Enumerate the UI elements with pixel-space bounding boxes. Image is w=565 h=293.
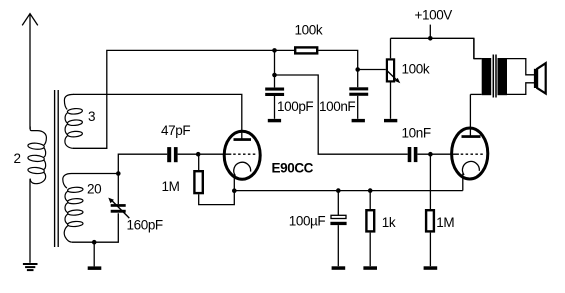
ground bar coil20	[88, 266, 102, 270]
svg-text:10nF: 10nF	[402, 126, 431, 141]
triode V1a E90CC	[224, 131, 260, 191]
svg-text:+100V: +100V	[415, 8, 453, 23]
speaker LS	[534, 63, 546, 93]
wire cathode bus	[234, 190, 462, 192]
supply +100V stub	[429, 25, 431, 39]
wire 100pF branch	[274, 50, 276, 87]
wire +100V bus	[391, 38, 482, 58]
wire ground lead	[93, 242, 95, 266]
svg-text:100µF: 100µF	[289, 214, 326, 229]
earth ground antenna	[23, 264, 38, 270]
wire plate lead V1a from coil 3 top	[73, 94, 242, 139]
capacitor 100pF	[265, 88, 284, 123]
wire antenna ground lead	[29, 179, 31, 263]
coil L1 primary "2"	[28, 127, 47, 184]
transformer core T1	[55, 90, 59, 247]
output transformer T2	[470, 38, 534, 97]
resistor 1k	[363, 191, 377, 270]
resistor 1M grid	[194, 154, 234, 204]
wire varcap bottom to coil20 bottom	[72, 213, 118, 242]
svg-text:2: 2	[14, 151, 21, 166]
node dot 1k	[368, 188, 373, 193]
node dot 100uF	[336, 188, 341, 193]
node dot cathode1	[232, 188, 237, 193]
wire coil 3 bottom to 100k bus	[73, 50, 295, 148]
wire plate lead V1b	[469, 94, 471, 136]
capacitor 100uF	[330, 191, 346, 270]
capacitor 10nF	[408, 147, 418, 162]
svg-text:1k: 1k	[382, 215, 396, 230]
coil L3 secondary "20"	[63, 174, 83, 243]
svg-text:100k: 100k	[295, 22, 323, 37]
node dot grid2	[428, 152, 433, 157]
wire varcap top lead	[117, 174, 119, 205]
resistor 100k plate	[295, 47, 317, 53]
potentiometer 100k	[384, 38, 400, 122]
variable capacitor C 160pF	[108, 198, 129, 219]
svg-text:1M: 1M	[162, 179, 180, 194]
svg-text:100pF: 100pF	[277, 99, 313, 114]
node dot 100pF/coupling	[272, 73, 277, 78]
capacitor 100nF	[349, 70, 368, 123]
svg-text:20: 20	[87, 182, 101, 197]
svg-text:100k: 100k	[402, 61, 430, 76]
wire coupling to 10nF rail	[275, 75, 408, 154]
capacitor 47pF	[167, 147, 177, 162]
node dot 100nF/pot	[355, 67, 360, 72]
antenna	[22, 14, 38, 129]
resistor 1M grid2	[424, 154, 438, 270]
wire 100k right to pot node	[318, 50, 386, 69]
coil L2 secondary "3"	[64, 94, 82, 148]
svg-text:E90CC: E90CC	[272, 161, 314, 176]
svg-text:3: 3	[88, 109, 95, 124]
svg-text:100nF: 100nF	[319, 99, 355, 114]
node grid1 top corner, wire to 47pF	[118, 154, 167, 173]
svg-text:47pF: 47pF	[161, 123, 190, 138]
node dot grid1	[196, 152, 201, 157]
wire 47pF to grid node	[178, 153, 232, 155]
svg-text:160pF: 160pF	[127, 217, 163, 232]
triode V1b E90CC	[452, 128, 488, 191]
node dot ground tap	[92, 240, 97, 245]
wire 10nF to grid2	[418, 153, 459, 155]
svg-text:1M: 1M	[436, 215, 454, 230]
wire top bus node	[272, 48, 277, 53]
wire coil 20 top to grid node	[72, 173, 119, 175]
node dot coil20/varcap	[116, 171, 121, 176]
